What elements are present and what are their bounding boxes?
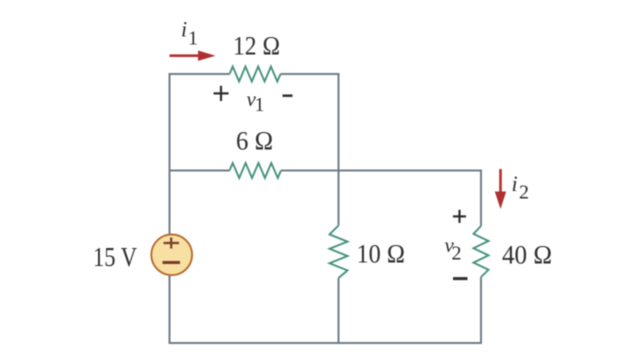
svg-text:1: 1	[188, 28, 198, 50]
svg-text:2: 2	[452, 243, 462, 265]
wire bottom rail	[169, 342, 483, 344]
current arrow i1	[170, 51, 216, 61]
wire right vertical upper (middle branch corner to 40 ohm)	[480, 170, 482, 227]
resistor R 10ohm zigzag	[330, 226, 348, 279]
svg-text:10 Ω: 10 Ω	[357, 240, 406, 269]
svg-text:i: i	[512, 171, 518, 196]
svg-text:40 Ω: 40 Ω	[502, 241, 552, 270]
voltage source V1 circle	[151, 234, 192, 275]
svg-text:2: 2	[519, 181, 529, 203]
wire middle vertical lower (10 ohm to bottom rail)	[338, 278, 340, 343]
voltage source minus sign	[163, 261, 181, 264]
svg-text:1: 1	[255, 94, 265, 116]
svg-text:i: i	[181, 17, 187, 42]
resistor R 40ohm zigzag	[474, 226, 489, 277]
resistor R 6ohm zigzag	[230, 163, 282, 178]
wire left vertical lower (source bottom to bottom rail)	[169, 275, 171, 344]
wire right vertical lower (40 ohm to bottom rail)	[480, 277, 482, 344]
svg-text:12 Ω: 12 Ω	[233, 32, 280, 61]
wire top branch left segment	[170, 74, 230, 171]
wire middle vertical upper (cross node to 10 ohm)	[338, 171, 340, 226]
label minus of v1	[283, 94, 293, 97]
voltage source plus sign	[164, 238, 180, 249]
current arrow i2	[495, 169, 506, 209]
svg-text:6 Ω: 6 Ω	[236, 127, 273, 156]
wire left vertical upper (node to source top)	[169, 170, 171, 235]
label plus of v2	[453, 210, 466, 223]
label minus of v2	[453, 277, 468, 280]
wire middle branch left segment	[170, 170, 230, 172]
wire middle branch right segment	[281, 170, 481, 172]
wire top branch right segment	[281, 74, 339, 171]
resistor R 12ohm zigzag	[230, 67, 281, 82]
label plus of v1	[214, 86, 229, 101]
svg-text:15 V: 15 V	[93, 242, 137, 272]
